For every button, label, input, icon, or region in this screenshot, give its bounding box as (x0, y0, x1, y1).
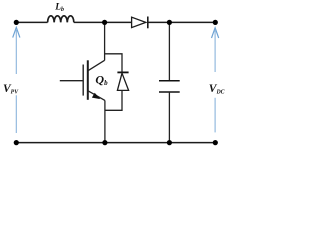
node H (output - terminal) (213, 140, 218, 145)
capacitor C top plate (159, 80, 180, 82)
svg-text:Lb: Lb (54, 3, 64, 14)
transistor Qb gate bar (82, 65, 84, 96)
arrow Vdc shaft upper (214, 31, 216, 73)
node C (capacitor top junction) (167, 20, 172, 25)
transistor Qb body bar (87, 60, 89, 100)
wire: freewheel diode bottom link (105, 90, 122, 110)
node B (IGBT top junction) (102, 20, 107, 25)
wire: IGBT emitter vertical (104, 100, 106, 142)
node G (capacitor bottom junction) (167, 140, 172, 145)
wire: IGBT collector vertical (104, 22, 106, 60)
svg-text:VPV: VPV (3, 83, 19, 95)
diode Dq triangle (117, 73, 128, 90)
wire: capacitor bottom lead (168, 92, 170, 143)
transistor Qb (IGBT) gate lead (60, 80, 83, 82)
arrow Vdc head (212, 28, 219, 38)
capacitor C bottom plate (159, 91, 180, 93)
arrow Vpv shaft lower (15, 95, 17, 133)
svg-text:Qb: Qb (95, 72, 108, 87)
node F (IGBT bottom junction) (102, 140, 107, 145)
inductor Lb (48, 16, 74, 23)
arrow Vpv head (13, 27, 20, 37)
arrow Vdc shaft lower (214, 98, 216, 133)
wire: freewheel diode top link (105, 54, 122, 72)
diode D (boost diode) (132, 17, 148, 29)
transistor Qb collector lead (88, 60, 105, 71)
transistor Qb emitter lead (88, 91, 105, 101)
node E (bottom left) (14, 140, 19, 145)
wire: capacitor top lead (168, 22, 170, 80)
wire: bottom rail (16, 142, 215, 144)
wire: top rail middle segment (inductor to diode anode) (74, 21, 132, 23)
arrow Vpv shaft upper (15, 30, 17, 74)
wire: top rail right segment (diode cathode to output node) (148, 21, 216, 23)
transistor Qb emitter arrow (92, 93, 100, 99)
diode Dq (anti-parallel) cathode bar (117, 71, 128, 73)
node D (output + terminal) (213, 20, 218, 25)
wire: top rail left segment (node A to inductor) (16, 21, 47, 23)
node A (top left) (14, 20, 19, 25)
svg-text:VDC: VDC (209, 83, 225, 95)
